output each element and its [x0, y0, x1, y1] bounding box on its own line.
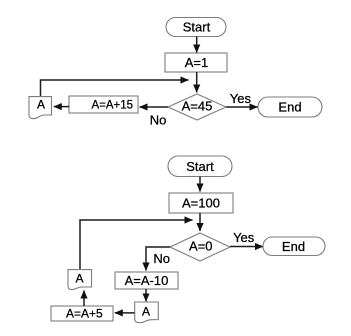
svg-text:A=100: A=100 [182, 196, 220, 211]
document symbol A (bottom left) [68, 270, 92, 290]
document symbol A (bottom right) [135, 302, 159, 323]
svg-text:Start: Start [183, 20, 211, 35]
svg-text:End: End [282, 239, 305, 254]
arrow Start to A=1 (top chart) [196, 37, 198, 53]
terminator End (top chart) [258, 97, 322, 117]
arrow A=A-10 to document A (bottom right) [145, 289, 147, 301]
svg-text:A=1: A=1 [185, 55, 209, 70]
arrow A=100 to decision A=0 [199, 213, 201, 231]
process box A=A+15 [69, 96, 138, 113]
svg-text:Yes: Yes [230, 91, 252, 106]
arrow A=A+5 up to document A (bottom left) [83, 291, 85, 307]
decision diamond A=0 [170, 233, 230, 261]
arrow A=A+15 to document A (top chart) [54, 106, 69, 108]
svg-text:A=A-10: A=A-10 [125, 273, 169, 288]
wire A=0 No to A=A-10 [146, 247, 170, 271]
svg-text:A: A [142, 305, 150, 319]
svg-text:A=0: A=0 [189, 239, 213, 254]
arrow document A to A=A+5 [115, 312, 135, 314]
svg-text:No: No [150, 113, 167, 128]
terminator Start (top chart) [166, 18, 226, 37]
loop-back wire from document A into A=1/A=45 connector (top chart) [41, 80, 189, 96]
process box A=100 [169, 193, 233, 213]
svg-text:End: End [278, 100, 301, 115]
arrow A=0 Yes to End (bottom chart) [230, 246, 263, 248]
process box A=A+5 [51, 306, 113, 321]
svg-text:Yes: Yes [233, 230, 255, 245]
arrow A=45 No to A=A+15 [140, 106, 169, 108]
arrow A=45 Yes to End (top chart) [226, 106, 258, 108]
svg-text:A=45: A=45 [182, 99, 213, 114]
svg-text:A=A+5: A=A+5 [66, 307, 103, 321]
svg-text:A=A+15: A=A+15 [92, 100, 134, 112]
process box A=A-10 [115, 272, 178, 289]
svg-text:A: A [37, 98, 45, 112]
terminator End (bottom chart) [263, 237, 325, 256]
loop-back wire from document A into A=100/A=0 connector (bottom chart) [80, 220, 193, 269]
document symbol A (top chart) [29, 97, 52, 119]
decision diamond A=45 [168, 94, 226, 120]
terminator Start (bottom chart) [168, 156, 232, 177]
arrow A=1 to decision A=45 [196, 72, 198, 93]
svg-text:Start: Start [186, 159, 214, 174]
process box A=1 [165, 53, 227, 72]
arrow Start to A=100 (bottom chart) [199, 177, 201, 192]
svg-text:A: A [75, 272, 83, 286]
svg-text:No: No [153, 251, 170, 266]
